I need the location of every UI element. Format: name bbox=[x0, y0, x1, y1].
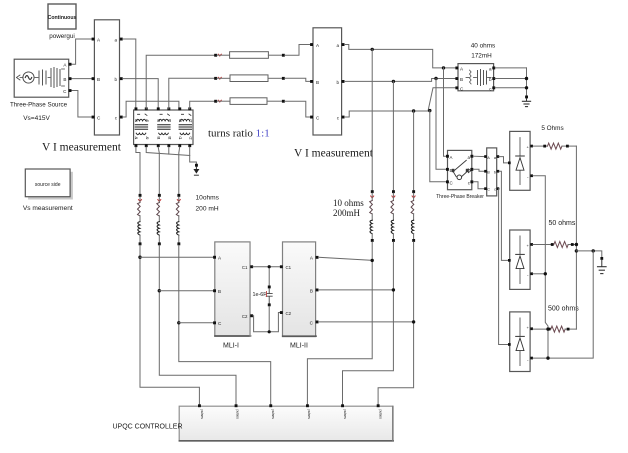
transformer bank T1 (three 1ph transformers, turns ratio 1:1) bbox=[134, 110, 193, 145]
wire branch B2 to U2 B bbox=[285, 78, 311, 81]
wire net a down to breaker A bbox=[444, 68, 447, 156]
port ground G3 bbox=[195, 164, 198, 167]
svg-text:MLI-II: MLI-II bbox=[290, 343, 308, 350]
port D1 plus bbox=[530, 145, 533, 148]
port U2 B bbox=[310, 80, 313, 83]
wire transformer port 4 up to series branch B2 bbox=[169, 78, 215, 109]
svg-text:a: a bbox=[114, 38, 117, 43]
svg-text:b: b bbox=[336, 80, 339, 85]
port source C bbox=[69, 89, 72, 92]
port MLI-II A bbox=[316, 256, 319, 259]
port source B bbox=[69, 77, 72, 80]
port U1 A bbox=[92, 38, 95, 41]
Three-Phase Breaker block bbox=[448, 150, 472, 189]
wire load a to ground bus bbox=[495, 67, 526, 69]
port load a bbox=[492, 67, 495, 70]
wire tap to MLI-I C bbox=[179, 322, 214, 324]
port U1 c bbox=[120, 116, 123, 119]
svg-text:source side: source side bbox=[35, 182, 61, 188]
svg-text:B: B bbox=[310, 289, 313, 294]
node MLI-II B junction bbox=[392, 288, 395, 291]
port MLI-II C2 bbox=[280, 311, 283, 314]
wire net b down through RL branch L5 bbox=[392, 81, 394, 190]
series RLC branch B2 bbox=[214, 75, 285, 82]
svg-text:B: B bbox=[63, 77, 66, 82]
port D1 minus bbox=[530, 174, 533, 177]
port U2 A bbox=[310, 43, 313, 46]
wire L3 down to UPQC port3 bbox=[179, 245, 271, 404]
node load bus c junction bbox=[525, 86, 528, 89]
port D3 in bbox=[508, 343, 511, 346]
diode D3 bbox=[510, 312, 530, 372]
svg-text:A: A bbox=[450, 155, 453, 160]
port breaker c bbox=[470, 180, 473, 183]
svg-text:c: c bbox=[494, 188, 496, 192]
port load A bbox=[455, 67, 458, 70]
port D3 plus bbox=[530, 327, 533, 330]
wire load c to ground bus bbox=[495, 87, 526, 89]
diode D2 bbox=[510, 230, 530, 289]
svg-text:5 Ohms: 5 Ohms bbox=[541, 125, 563, 132]
wire tap to MLI-I B bbox=[159, 290, 213, 292]
svg-text:pulses: pulses bbox=[271, 410, 275, 420]
node c tap junction bbox=[412, 109, 415, 112]
svg-text:40 ohms: 40 ohms bbox=[471, 42, 496, 49]
node a tap junction bbox=[371, 48, 374, 51]
port MLI-II C1 bbox=[280, 265, 283, 268]
wire net b down to breaker B bbox=[436, 79, 446, 170]
wire MLI-II C to net c vertical bbox=[319, 321, 414, 323]
svg-text:Three-Phase Breaker: Three-Phase Breaker bbox=[436, 194, 484, 200]
node MLI-II C junction bbox=[412, 320, 415, 323]
node MLI-II A junction bbox=[371, 259, 374, 262]
svg-text:10 ohms: 10 ohms bbox=[333, 198, 364, 208]
Vs measurement scope block (source side) bbox=[25, 169, 73, 200]
port meter C bbox=[484, 187, 487, 190]
wire L1 down to UPQC port1 bbox=[140, 245, 199, 404]
svg-text:V I measurement: V I measurement bbox=[294, 148, 374, 160]
node D3 minus chain junction bbox=[546, 356, 549, 359]
svg-text:Continuous: Continuous bbox=[48, 15, 77, 21]
svg-text:C2: C2 bbox=[242, 314, 248, 319]
port U1 B bbox=[92, 77, 95, 80]
three-phase series RLC load 40ohm 172mH bbox=[458, 64, 494, 92]
port load b bbox=[492, 77, 495, 80]
MLI-II block bbox=[283, 242, 317, 337]
wire L6 down to UPQC port6 bbox=[378, 242, 414, 405]
port meter A bbox=[484, 155, 487, 158]
port breaker B bbox=[446, 168, 449, 171]
port meter c bbox=[497, 187, 500, 190]
wire branch B1 to U2 A bbox=[285, 45, 311, 56]
wire source C to U1 C bbox=[71, 91, 93, 118]
MLI-I block bbox=[215, 242, 251, 337]
svg-text:10ohms: 10ohms bbox=[196, 195, 220, 202]
port UPQC 1 bbox=[198, 404, 201, 407]
wire U2 a to load A (net a) bbox=[345, 45, 456, 68]
wire net c down through RL branch L6 bbox=[413, 111, 415, 190]
resistor R2 50 ohms bbox=[533, 242, 576, 248]
port U1 b bbox=[120, 77, 123, 80]
wire transformer port4 to ground slant bbox=[168, 147, 170, 154]
node minus crosses R3 input junction bbox=[546, 327, 549, 330]
port load B bbox=[455, 77, 458, 80]
port MLI-I B bbox=[213, 289, 216, 292]
node bus ground tap junction bbox=[575, 249, 578, 252]
wire D1 minus chain down bbox=[533, 176, 548, 358]
port ground G2 bbox=[600, 257, 603, 260]
svg-text:pulses: pulses bbox=[307, 410, 311, 420]
wire breaker c to meter C bbox=[473, 182, 484, 189]
port MLI-I C bbox=[213, 321, 216, 324]
port source A bbox=[69, 63, 72, 66]
port U1 a bbox=[120, 38, 123, 41]
wire U2 c to load C (net c) bbox=[345, 88, 456, 117]
node c breaker tap junction bbox=[428, 109, 431, 112]
svg-text:a: a bbox=[336, 43, 339, 48]
svg-text:pulses: pulses bbox=[379, 410, 383, 420]
svg-text:pulses: pulses bbox=[343, 410, 347, 420]
node D2 minus junction bbox=[544, 272, 547, 275]
wire D3 minus to ground net bbox=[533, 251, 593, 358]
port UPQC 2 bbox=[235, 404, 238, 407]
port MLI-I C1 bbox=[250, 265, 253, 268]
node L2 tap to MLI-I B bbox=[158, 289, 161, 292]
svg-text:50 ohms: 50 ohms bbox=[549, 220, 576, 227]
wire meter b to diode D2 bbox=[499, 171, 508, 260]
svg-text:1e-6F: 1e-6F bbox=[253, 292, 268, 298]
svg-text:b: b bbox=[494, 170, 496, 174]
svg-text:C2: C2 bbox=[286, 311, 292, 316]
port breaker A bbox=[446, 155, 449, 158]
wire L2 down to UPQC port2 bbox=[159, 245, 236, 404]
port meter b bbox=[497, 170, 500, 173]
port meter B bbox=[484, 170, 487, 173]
port D3 minus bbox=[530, 357, 533, 360]
svg-text:UPQC CONTROLLER: UPQC CONTROLLER bbox=[113, 424, 183, 431]
node bus R2 junction bbox=[575, 243, 578, 246]
wire transformer port 6 up to series branch B3 bbox=[190, 101, 215, 109]
wire transformer port3 down to RL branch L2 bbox=[158, 147, 159, 194]
node minus return junction bbox=[592, 249, 595, 252]
port UPQC 4 bbox=[306, 404, 309, 407]
port UPQC 5 bbox=[341, 404, 344, 407]
node b tap junction bbox=[392, 80, 395, 83]
node L3 tap to MLI-I C bbox=[177, 321, 180, 324]
svg-text:powergui: powergui bbox=[49, 33, 75, 40]
wire breaker a to meter A bbox=[473, 155, 484, 157]
node capacitor bottom junction bbox=[268, 330, 271, 333]
Three-Phase Source block bbox=[14, 59, 68, 97]
port MLI-I A bbox=[213, 256, 216, 259]
three-phase V-I measurement block U3 (narrow) bbox=[487, 148, 497, 196]
port ground G1 bbox=[525, 96, 528, 99]
wire meter c to diode D3 bbox=[499, 189, 509, 345]
resistor R3 500 ohms bbox=[533, 326, 576, 332]
ground G2 (dc load) bbox=[598, 260, 607, 274]
wire source A to U1 A bbox=[71, 39, 93, 64]
port U2 c bbox=[342, 116, 345, 119]
wire bus to ground G2 bbox=[576, 251, 601, 257]
UPQC CONTROLLER block bbox=[179, 406, 393, 441]
svg-text:200mH: 200mH bbox=[333, 208, 361, 218]
svg-text:172mH: 172mH bbox=[471, 53, 492, 60]
svg-text:V I measurement: V I measurement bbox=[42, 142, 122, 154]
svg-text:B: B bbox=[487, 170, 490, 174]
diode D1 bbox=[510, 131, 530, 190]
port MLI-II C bbox=[316, 321, 319, 324]
capacitor C1 branch 1e-6F bbox=[266, 267, 272, 332]
svg-text:MLI-I: MLI-I bbox=[223, 343, 239, 350]
wire U1 b to transformer port 3 bbox=[123, 79, 159, 109]
wire U1 c to transformer port 5 bbox=[123, 101, 179, 117]
resistor R1 5 Ohms bbox=[533, 143, 576, 149]
wire load b to ground bus bbox=[495, 78, 526, 80]
svg-text:C1: C1 bbox=[242, 265, 248, 270]
svg-text:pulses: pulses bbox=[236, 410, 240, 420]
svg-text:500 ohms: 500 ohms bbox=[548, 306, 579, 313]
transformer bottom ports 1-6 bbox=[135, 144, 192, 147]
powergui block bbox=[48, 4, 77, 29]
node load bus b junction bbox=[525, 77, 528, 80]
svg-text:B: B bbox=[316, 80, 319, 85]
svg-text:Three-Phase Source: Three-Phase Source bbox=[10, 102, 68, 109]
node a breaker tap junction bbox=[442, 66, 445, 69]
port MLI-II B bbox=[316, 289, 319, 292]
port load c bbox=[492, 86, 495, 89]
port D2 in bbox=[508, 259, 511, 262]
svg-text:turns ratio 1:1: turns ratio 1:1 bbox=[208, 128, 270, 140]
port breaker a bbox=[470, 155, 473, 158]
port U2 a bbox=[342, 43, 345, 46]
wire breaker b to meter B bbox=[473, 169, 484, 171]
wire transformer port2 to ground slant bbox=[146, 147, 190, 155]
wire tap to MLI-I A bbox=[140, 256, 214, 258]
svg-text:B: B bbox=[460, 77, 463, 82]
svg-text:b: b bbox=[114, 77, 117, 82]
svg-text:Vs=415V: Vs=415V bbox=[23, 115, 50, 122]
port load C bbox=[455, 86, 458, 89]
wire MLI-I C1 to MLI-II C1 bbox=[253, 266, 280, 268]
port meter a bbox=[497, 155, 500, 158]
transformer top ports 1-6 bbox=[135, 107, 192, 110]
wire transformer port 2 up to series branch B1 bbox=[146, 55, 214, 109]
wire net c down to breaker C bbox=[430, 111, 446, 182]
svg-text:C: C bbox=[487, 188, 490, 192]
V I measurement block U1 (left) bbox=[94, 20, 119, 135]
wire transformer port6 to ground bbox=[190, 147, 197, 164]
wire transformer port5 down to RL branch L3 bbox=[178, 147, 181, 194]
port U2 C bbox=[310, 116, 313, 119]
series RL branch L4 bbox=[370, 190, 374, 242]
wire MLI-I C2 to MLI-II C2 bbox=[253, 313, 280, 332]
svg-text:pulses: pulses bbox=[200, 410, 204, 420]
port breaker b bbox=[470, 168, 473, 171]
port D2 minus bbox=[530, 272, 533, 275]
node L1 tap to MLI-I A bbox=[138, 256, 141, 259]
port breaker C bbox=[446, 180, 449, 183]
wire transformer port1 down to RL branch L1 bbox=[136, 147, 140, 194]
wire U1 a to transformer port 1 bbox=[123, 39, 136, 109]
wire net a down through RL branch L4 bbox=[371, 49, 373, 190]
svg-text:B: B bbox=[97, 77, 100, 82]
svg-text:C: C bbox=[450, 180, 453, 185]
wire U2 b to load B (net b) bbox=[345, 79, 456, 82]
ground G3 (transformer secondary common) bbox=[193, 167, 199, 176]
node capacitor top junction bbox=[268, 265, 271, 268]
wire load ground bus vertical bbox=[526, 68, 528, 96]
port MLI-I C2 bbox=[250, 314, 253, 317]
wire MLI-II A to net a vertical bbox=[319, 257, 373, 260]
series RLC branch B3 bbox=[214, 98, 285, 105]
svg-text:C1: C1 bbox=[286, 265, 292, 270]
port U1 C bbox=[92, 116, 95, 119]
series RL branch L2 (10ohms 200mH) bbox=[157, 194, 161, 245]
series RL branch L3 (10ohms 200mH) bbox=[176, 194, 180, 245]
V I measurement block U2 (right) bbox=[313, 28, 342, 135]
series RL branch L5 bbox=[391, 190, 395, 242]
port D1 in bbox=[508, 162, 511, 165]
wire MLI-II B to net b vertical bbox=[319, 289, 394, 291]
svg-text:A: A bbox=[487, 156, 490, 160]
wire D2 minus join bbox=[533, 273, 545, 275]
svg-text:B: B bbox=[218, 289, 221, 294]
ground G1 (load neutral) bbox=[522, 98, 530, 106]
series RL branch L1 (10ohms 200mH) bbox=[138, 194, 142, 245]
wire source B to U1 B bbox=[71, 78, 93, 80]
svg-text:200 mH: 200 mH bbox=[196, 206, 219, 213]
port U2 b bbox=[342, 80, 345, 83]
wire L4 down to UPQC port4 bbox=[307, 242, 372, 405]
wire meter a to diode D1 bbox=[499, 157, 508, 163]
series RL branch L6 bbox=[411, 190, 415, 242]
svg-text:Vs measurement: Vs measurement bbox=[23, 205, 73, 212]
wire L5 down to UPQC port5 bbox=[343, 242, 394, 405]
svg-text:a: a bbox=[489, 67, 492, 72]
series RLC branch B1 bbox=[214, 52, 285, 59]
wire resistor output bus bbox=[575, 146, 577, 329]
port UPQC 6 bbox=[377, 404, 380, 407]
wire branch B3 to U2 C bbox=[285, 101, 311, 117]
port UPQC 3 bbox=[269, 404, 272, 407]
node b breaker tap junction bbox=[434, 77, 437, 80]
port D2 plus bbox=[530, 243, 533, 246]
